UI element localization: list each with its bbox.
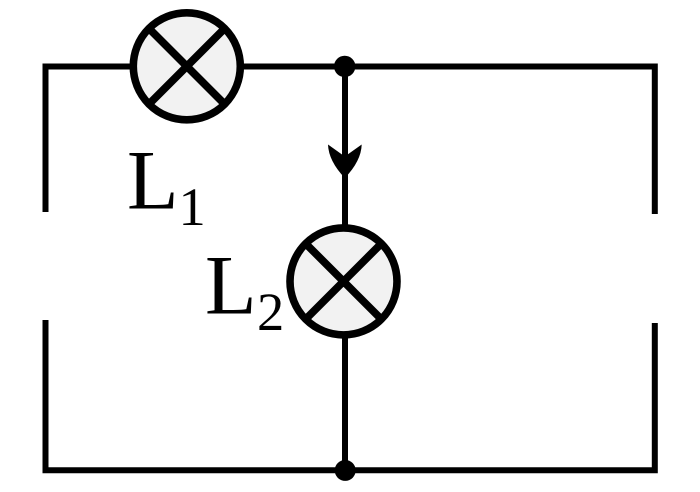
svg-text:1: 1	[179, 176, 206, 237]
wire: bottom run (left rail lower segment + bottom wire + right rail lower segment)	[46, 320, 655, 470]
wire: middle branch from node A down to node B	[342, 67, 348, 471]
wire: top-left corner run (left rail upper segment + top wire + right rail upper segment)	[46, 67, 655, 215]
current arrow on middle branch	[328, 145, 362, 179]
svg-text:L: L	[205, 240, 257, 333]
node A (top junction dot)	[334, 56, 355, 77]
lamp L2	[290, 228, 397, 335]
node B (bottom junction dot)	[335, 460, 356, 481]
svg-text:2: 2	[257, 281, 284, 342]
lamp L1	[133, 13, 240, 120]
label L1	[127, 135, 206, 238]
svg-text:L: L	[127, 135, 179, 228]
label L2	[205, 240, 284, 343]
